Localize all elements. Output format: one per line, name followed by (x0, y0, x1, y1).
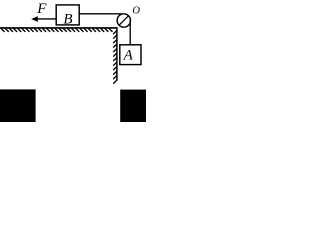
block A (120, 45, 141, 65)
pulley circle (117, 14, 130, 27)
svg-text:F: F (36, 1, 47, 17)
block B (56, 5, 79, 28)
table right wall line (116, 27, 118, 80)
svg-text:O: O (132, 6, 140, 17)
table surface line (0, 27, 118, 29)
left table leg (black) (0, 89, 36, 122)
svg-text:B: B (63, 11, 72, 27)
svg-text:A: A (123, 48, 134, 64)
force arrow F line (37, 18, 57, 20)
string from block B to pulley (80, 13, 122, 15)
wall hatching (113, 31, 117, 84)
table surface hatching (1, 28, 113, 32)
force arrow F head (31, 16, 38, 22)
pulley axle diagonal (119, 16, 129, 26)
right table leg (black) (120, 90, 146, 122)
string from pulley down to block A (129, 20, 131, 45)
